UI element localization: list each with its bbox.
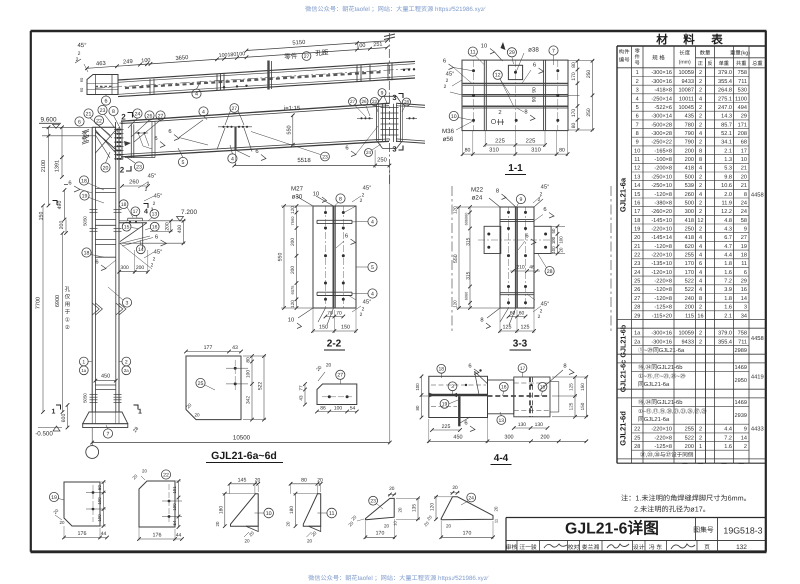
svg-text:10087: 10087 — [678, 88, 694, 94]
svg-text:4.4: 4.4 — [724, 427, 732, 433]
svg-text:418: 418 — [685, 235, 694, 241]
svg-text:100: 100 — [97, 497, 102, 505]
svg-text:23: 23 — [136, 164, 142, 170]
svg-text:200: 200 — [685, 148, 694, 154]
svg-text:418: 418 — [685, 166, 694, 172]
view 4-4 circle 17 — [518, 364, 527, 373]
svg-text:275.1: 275.1 — [718, 96, 732, 102]
strut match mark — [384, 34, 395, 37]
svg-text:550: 550 — [278, 253, 284, 262]
svg-text:16: 16 — [152, 225, 158, 231]
svg-text:页: 页 — [704, 544, 710, 551]
svg-text:6: 6 — [468, 363, 471, 370]
svg-text:6: 6 — [533, 62, 536, 69]
svg-text:4: 4 — [371, 219, 374, 225]
svg-text:176: 176 — [153, 533, 162, 539]
bracket seat plate — [119, 222, 147, 224]
svg-text:3-3: 3-3 — [513, 339, 528, 350]
svg-text:494: 494 — [738, 105, 747, 111]
svg-text:-522×6: -522×6 — [654, 105, 672, 111]
svg-text:135: 135 — [412, 504, 418, 512]
svg-text:27: 27 — [232, 106, 238, 112]
svg-text:18: 18 — [84, 250, 90, 256]
svg-text:711: 711 — [738, 79, 747, 85]
view 2-2 bolts — [324, 211, 327, 214]
svg-text:-380×8: -380×8 — [654, 200, 672, 206]
svg-text:379.0: 379.0 — [718, 331, 732, 337]
svg-text:44: 44 — [176, 533, 182, 539]
svg-text:80: 80 — [301, 478, 307, 484]
svg-text:4.7: 4.7 — [724, 244, 732, 250]
column top cap — [92, 126, 115, 128]
svg-text:200: 200 — [685, 157, 694, 163]
plate 25 corner arc — [186, 410, 196, 420]
svg-text:180: 180 — [218, 506, 224, 514]
svg-text:19: 19 — [634, 227, 640, 233]
svg-text:7: 7 — [552, 48, 555, 54]
svg-text:550: 550 — [453, 254, 459, 263]
beam end bolt cluster — [137, 132, 139, 134]
svg-text:68: 68 — [741, 140, 747, 146]
svg-text:2: 2 — [145, 187, 148, 193]
svg-text:58: 58 — [741, 218, 747, 224]
svg-text:2: 2 — [699, 305, 702, 311]
svg-text:250: 250 — [685, 227, 694, 233]
svg-text:20: 20 — [286, 521, 291, 526]
svg-text:50: 50 — [551, 228, 556, 233]
svg-text:12: 12 — [697, 218, 703, 224]
svg-text:2: 2 — [125, 359, 128, 365]
svg-text:1: 1 — [699, 444, 702, 450]
svg-text:522: 522 — [685, 287, 694, 293]
svg-text:5: 5 — [371, 265, 374, 271]
plate 19 circle — [49, 492, 58, 501]
svg-text:3: 3 — [392, 93, 396, 102]
svg-text:10: 10 — [741, 157, 747, 163]
svg-text:80: 80 — [571, 123, 577, 129]
svg-text:170: 170 — [685, 270, 694, 276]
svg-text:①~⑮,⑰~㉓,㉕~㉙: ①~⑮,⑰~㉓,㉕~㉙ — [638, 373, 686, 380]
strut splice cluster right — [356, 66, 358, 82]
title block tujihao — [695, 518, 697, 541]
svg-text:13: 13 — [152, 212, 158, 218]
svg-text:120: 120 — [430, 503, 436, 511]
svg-text:20: 20 — [446, 524, 452, 529]
svg-text:24: 24 — [741, 200, 747, 206]
view 1-1 bottom dims — [485, 144, 545, 146]
strut right end verticals — [387, 63, 389, 81]
svg-text:355.4: 355.4 — [718, 79, 732, 85]
svg-text:11.9: 11.9 — [722, 200, 732, 206]
svg-text:-220×8: -220×8 — [654, 435, 672, 441]
svg-text:101: 101 — [172, 486, 177, 494]
right beam continuing — [396, 103, 425, 105]
svg-text:6: 6 — [443, 58, 446, 65]
svg-text:2: 2 — [699, 122, 702, 128]
svg-text:-115×20: -115×20 — [652, 313, 672, 319]
svg-text:表: 表 — [710, 34, 723, 47]
svg-text:材: 材 — [655, 34, 668, 47]
view 4-4 left diagonals — [475, 371, 488, 384]
svg-text:18: 18 — [81, 178, 87, 184]
svg-text:3: 3 — [451, 384, 454, 390]
plate 23 circle — [369, 496, 378, 505]
svg-text:6: 6 — [525, 233, 528, 240]
view 2-2 battens — [317, 219, 352, 221]
svg-text:790: 790 — [685, 140, 694, 146]
svg-text:2.1: 2.1 — [724, 313, 732, 319]
svg-text:i=1:15: i=1:15 — [284, 105, 301, 112]
svg-text:23: 23 — [372, 99, 378, 104]
view 4-4 circle 19 — [440, 399, 449, 408]
plate 10 top dims — [230, 483, 259, 485]
svg-text:80: 80 — [465, 148, 471, 154]
svg-text:2: 2 — [699, 140, 702, 146]
view 1-1 bolts — [472, 69, 475, 72]
svg-text:4: 4 — [195, 92, 198, 98]
svg-text:14: 14 — [138, 247, 144, 253]
svg-text:2: 2 — [744, 444, 747, 450]
plate 22 bottom dims — [139, 538, 182, 540]
svg-text:17: 17 — [741, 148, 747, 154]
svg-text:-220×8: -220×8 — [654, 279, 672, 285]
view 4-4 dims 130 130 — [514, 427, 548, 429]
svg-text:4.3: 4.3 — [724, 227, 732, 233]
svg-text:重量(kg): 重量(kg) — [730, 50, 750, 57]
svg-text:20: 20 — [60, 520, 65, 525]
apex gusset top — [377, 96, 402, 104]
svg-text:225: 225 — [442, 424, 451, 430]
svg-text:20: 20 — [326, 363, 332, 369]
left dims column — [48, 127, 50, 205]
svg-text:规 格: 规 格 — [652, 55, 665, 62]
view 4-4 right block dashed — [514, 377, 550, 417]
view 4-4 circle 16 — [499, 382, 508, 391]
svg-text:8: 8 — [699, 157, 702, 163]
svg-text:300: 300 — [685, 209, 694, 215]
svg-text:2: 2 — [699, 88, 702, 94]
svg-text:4: 4 — [636, 96, 639, 102]
svg-text:249: 249 — [123, 58, 133, 66]
view 1-1 circle 10 — [449, 111, 458, 120]
svg-text:3: 3 — [392, 145, 396, 154]
svg-text:编号: 编号 — [619, 57, 630, 64]
svg-text:14: 14 — [741, 296, 747, 302]
svg-text:1a: 1a — [634, 331, 641, 337]
svg-text:80: 80 — [415, 405, 420, 410]
joint circles above — [84, 109, 93, 118]
svg-text:45°: 45° — [363, 299, 372, 306]
svg-text:200: 200 — [685, 444, 694, 450]
svg-text:86: 86 — [320, 406, 326, 412]
svg-text:2: 2 — [699, 200, 702, 206]
svg-text:2: 2 — [636, 79, 639, 85]
svg-text:25: 25 — [634, 279, 640, 285]
svg-text:225: 225 — [526, 138, 536, 145]
view 4-4 left dims — [421, 376, 423, 417]
svg-text:2a: 2a — [124, 368, 129, 373]
svg-text:9: 9 — [636, 140, 639, 146]
svg-text:16: 16 — [501, 385, 507, 391]
svg-text:5150: 5150 — [292, 39, 305, 47]
svg-text:17: 17 — [520, 366, 526, 372]
part circle 23 mid — [321, 152, 330, 161]
svg-text:微信公众号：朝花taofel ；网站：大量工程资源 http: 微信公众号：朝花taofel ；网站：大量工程资源 https:∕∕521986… — [305, 5, 486, 13]
part circle 20 — [101, 163, 110, 172]
svg-text:用: 用 — [65, 301, 71, 308]
svg-text:数量: 数量 — [700, 50, 711, 57]
flange tick marks 5050 — [82, 129, 89, 131]
strut bolt dashes — [125, 72, 382, 88]
svg-text:46: 46 — [529, 265, 535, 271]
svg-text:20: 20 — [384, 524, 390, 529]
svg-text:-145×14: -145×14 — [651, 235, 672, 241]
joint leader lines — [90, 118, 110, 135]
svg-text:1.3: 1.3 — [724, 157, 732, 163]
svg-text:255: 255 — [685, 427, 694, 433]
svg-text:180: 180 — [289, 506, 295, 514]
svg-text:2-2: 2-2 — [327, 339, 342, 350]
svg-text:4: 4 — [699, 192, 702, 198]
svg-text:7700: 7700 — [35, 297, 41, 309]
svg-text:10: 10 — [266, 511, 272, 517]
svg-text:7560: 7560 — [290, 216, 295, 226]
section divider chain line — [451, 186, 453, 332]
svg-text:图集号: 图集号 — [693, 526, 714, 534]
svg-text:170: 170 — [571, 72, 577, 81]
svg-text:1: 1 — [52, 409, 56, 416]
svg-text:2: 2 — [147, 181, 150, 187]
svg-text:115: 115 — [685, 313, 694, 319]
svg-text:315: 315 — [465, 237, 471, 245]
svg-text:170: 170 — [463, 531, 472, 537]
svg-text:27: 27 — [337, 373, 343, 379]
svg-text:6: 6 — [345, 145, 348, 152]
view 2-2 bottom leaders — [298, 308, 313, 318]
svg-text:90: 90 — [532, 97, 538, 103]
svg-text:3: 3 — [636, 88, 639, 94]
svg-text:2.未注明的孔径为ø17。: 2.未注明的孔径为ø17。 — [634, 505, 710, 514]
view 3-3 right wing — [534, 226, 551, 253]
view 2-2 web — [333, 206, 335, 308]
svg-text:21: 21 — [741, 166, 747, 172]
svg-text:43: 43 — [232, 345, 238, 351]
plate 11 circle — [327, 508, 337, 518]
svg-text:10: 10 — [481, 43, 487, 50]
svg-text:250: 250 — [586, 108, 592, 117]
svg-text:22: 22 — [163, 472, 169, 478]
svg-text:4: 4 — [699, 244, 702, 250]
svg-text:2: 2 — [699, 79, 702, 85]
svg-text:-120×10: -120×10 — [651, 270, 672, 276]
svg-text:490: 490 — [57, 201, 63, 210]
svg-text:50: 50 — [97, 485, 102, 490]
view 3-3 top leaders — [489, 198, 500, 207]
svg-text:522: 522 — [685, 279, 694, 285]
view 4-4 circle 15 — [538, 382, 547, 391]
svg-text:-165×8: -165×8 — [654, 148, 672, 154]
svg-text:120: 120 — [290, 206, 295, 214]
svg-text:7.2: 7.2 — [724, 435, 732, 441]
plate 25 dims top — [186, 351, 241, 353]
svg-text:娄兰湘: 娄兰湘 — [582, 544, 600, 551]
strut part circle 6 — [101, 96, 110, 105]
svg-text:2: 2 — [446, 78, 449, 84]
view 1-1 circle 12 — [493, 70, 502, 79]
svg-text:零件: 零件 — [284, 52, 298, 61]
svg-text:8: 8 — [699, 148, 702, 154]
svg-text:-300×16: -300×16 — [651, 70, 672, 76]
svg-text:20: 20 — [142, 469, 147, 474]
strut dim line A — [87, 48, 387, 69]
view 4-4 circle 3 — [448, 382, 457, 391]
svg-text:34: 34 — [741, 313, 747, 319]
view 3-3 centerlines — [508, 207, 510, 308]
svg-text:150: 150 — [341, 325, 350, 331]
view 4-4 left internal dashes — [431, 384, 486, 386]
svg-text:8: 8 — [744, 192, 747, 198]
svg-text:6075: 6075 — [290, 285, 295, 295]
svg-text:120: 120 — [290, 300, 295, 308]
svg-text:6: 6 — [699, 261, 702, 267]
view 3-3 flange splice lines — [500, 218, 534, 220]
view 2-2 circle 8 — [336, 194, 345, 203]
view 1-1 top plate 29 — [508, 65, 522, 79]
svg-text:4: 4 — [371, 291, 374, 297]
svg-text:2: 2 — [699, 339, 702, 345]
view 3-3 right dims — [557, 226, 559, 253]
view 4-4 circle 18 — [437, 364, 446, 373]
view 4-4 bolts — [465, 384, 467, 386]
svg-text:176: 176 — [78, 531, 87, 537]
svg-text:23: 23 — [634, 261, 640, 267]
view 2-2 right circles — [368, 217, 377, 226]
svg-text:10.6: 10.6 — [721, 183, 732, 189]
svg-text:1: 1 — [82, 359, 85, 365]
bracket dims right — [170, 221, 172, 232]
svg-text:-125×8: -125×8 — [654, 305, 672, 311]
svg-text:10011: 10011 — [679, 96, 694, 102]
svg-text:19G518-3: 19G518-3 — [723, 526, 762, 536]
view 2-2 top leaders — [296, 196, 313, 206]
svg-text:—: — — [721, 461, 727, 467]
svg-text:1.6: 1.6 — [724, 444, 732, 450]
part circle 23 lower — [134, 162, 143, 171]
svg-text:10: 10 — [313, 191, 319, 198]
svg-text:260: 260 — [685, 192, 694, 198]
svg-text:6: 6 — [155, 234, 158, 241]
svg-text:①~㉙同GJL21-6a: ①~㉙同GJL21-6a — [638, 347, 685, 354]
svg-text:251: 251 — [373, 42, 383, 49]
plate 27 bottom dims — [317, 411, 357, 413]
plate 27 bolts — [328, 395, 331, 398]
beam part circles mid — [178, 157, 187, 166]
svg-text:正: 正 — [698, 61, 703, 67]
svg-text:GJL21-6b: GJL21-6b — [619, 324, 628, 357]
svg-text:200: 200 — [290, 238, 296, 246]
svg-text:24: 24 — [468, 495, 474, 501]
plate 25 circle — [196, 378, 205, 387]
svg-text:130: 130 — [535, 422, 544, 428]
plate 25 plan — [186, 356, 241, 420]
svg-text:11: 11 — [634, 157, 640, 163]
svg-text:2: 2 — [362, 307, 365, 313]
svg-text:29: 29 — [509, 50, 515, 56]
svg-text:100: 100 — [141, 58, 151, 65]
svg-text:4: 4 — [699, 279, 702, 285]
strut center chain line — [95, 69, 412, 89]
svg-text:1-1: 1-1 — [508, 163, 523, 174]
svg-text:单重: 单重 — [719, 60, 729, 67]
sheet border frame — [31, 30, 767, 32]
svg-text:45°: 45° — [154, 249, 163, 256]
svg-text:6: 6 — [255, 148, 258, 155]
svg-text:2: 2 — [699, 227, 702, 233]
view 3-3 bottom leaders — [487, 308, 500, 318]
svg-text:28: 28 — [547, 269, 553, 275]
view 3-3 bolts — [507, 211, 510, 214]
svg-text:150: 150 — [319, 325, 328, 331]
svg-text:4: 4 — [699, 270, 702, 276]
svg-text:12.2: 12.2 — [721, 209, 732, 215]
plate 23 wedge — [365, 498, 394, 519]
column base plate — [83, 424, 128, 428]
plate 27 detail — [317, 384, 357, 405]
svg-text:120: 120 — [452, 300, 457, 308]
svg-text:微信公众号：朝花taofel ；网站：大量工程资源 http: 微信公众号：朝花taofel ；网站：大量工程资源 https:∕∕521986… — [308, 574, 489, 582]
svg-text:522: 522 — [685, 435, 694, 441]
svg-text:6900: 6900 — [55, 295, 61, 307]
svg-text:3650: 3650 — [175, 54, 188, 62]
svg-text:70: 70 — [327, 311, 333, 317]
svg-text:17: 17 — [634, 209, 640, 215]
strut mid vertical bar — [267, 61, 269, 90]
svg-text:125: 125 — [503, 325, 512, 331]
part circle 18 upper — [79, 176, 88, 185]
svg-text:539: 539 — [685, 183, 694, 189]
svg-text:500: 500 — [685, 200, 694, 206]
svg-text:⑯,㉔同GJL21-6b: ⑯,㉔同GJL21-6b — [638, 399, 682, 406]
svg-text:264.8: 264.8 — [718, 88, 732, 94]
svg-text:14.3: 14.3 — [721, 114, 732, 120]
svg-text:418: 418 — [685, 218, 694, 224]
svg-text:8: 8 — [636, 131, 639, 137]
svg-text:606060: 606060 — [465, 213, 469, 226]
svg-text:-300×16: -300×16 — [651, 79, 672, 85]
strut apex axis chain line — [388, 33, 390, 97]
svg-text:-0.500: -0.500 — [35, 431, 53, 438]
svg-text:530: 530 — [738, 88, 747, 94]
svg-text:4458: 4458 — [751, 192, 764, 199]
svg-text:28: 28 — [634, 305, 640, 311]
svg-text:60: 60 — [510, 311, 516, 317]
column base trapezoid — [83, 412, 128, 424]
view 2-2 centerlines — [325, 206, 327, 308]
svg-text:2: 2 — [540, 309, 543, 315]
svg-text:23: 23 — [370, 499, 376, 505]
svg-text:2: 2 — [699, 435, 702, 441]
joint gusset top — [120, 122, 134, 124]
table separator row — [617, 319, 766, 321]
svg-text:GJL21-6详图: GJL21-6详图 — [565, 520, 659, 538]
svg-text:177: 177 — [204, 345, 213, 351]
svg-text:25: 25 — [198, 381, 204, 387]
svg-text:100: 100 — [246, 370, 252, 378]
svg-text:21: 21 — [634, 244, 640, 250]
svg-text:3: 3 — [744, 305, 747, 311]
svg-text:汪一骏: 汪一骏 — [519, 544, 537, 551]
svg-text:18: 18 — [439, 367, 445, 373]
